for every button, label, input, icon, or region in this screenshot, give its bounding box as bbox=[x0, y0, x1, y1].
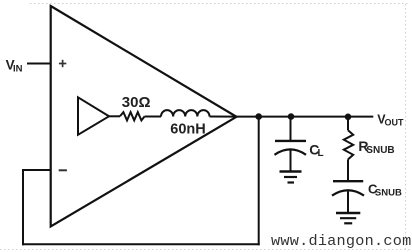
svg-text:SNUB: SNUB bbox=[375, 188, 402, 199]
svg-text:SNUB: SNUB bbox=[366, 145, 394, 156]
svg-text:www.diangon.com: www.diangon.com bbox=[271, 232, 411, 250]
svg-text:L: L bbox=[318, 148, 324, 159]
svg-text:OUT: OUT bbox=[385, 117, 405, 127]
svg-text:IN: IN bbox=[13, 64, 23, 75]
svg-text:60nH: 60nH bbox=[170, 122, 205, 138]
svg-text:30Ω: 30Ω bbox=[122, 94, 151, 111]
